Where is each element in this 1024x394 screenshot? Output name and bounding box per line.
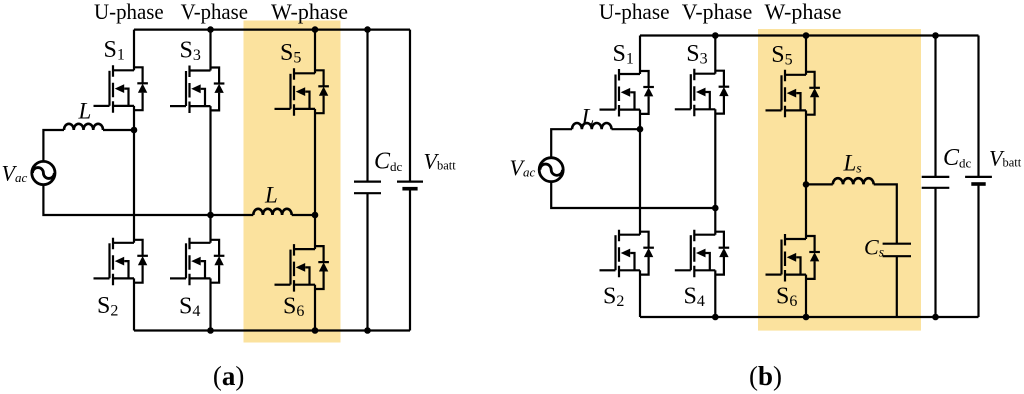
capacitor Cs snubber (b) [883,244,911,257]
svg-text:S1: S1 [613,41,634,68]
wire top DC bus (a) [134,29,410,31]
node bottom bus / V leg (b) (junction dot) [712,314,719,321]
wire U-phase leg upper (b) [639,36,641,75]
wire Vbatt top lead (b) [977,36,979,177]
svg-text:L: L [581,105,595,130]
wire V-phase leg middle (a) [209,106,211,243]
svg-text:Cdc: Cdc [374,149,403,175]
svg-text:S1: S1 [104,37,125,64]
inductor L input (b) [572,123,612,129]
wire W-phase leg upper (a) [314,30,316,74]
W-phase highlight rectangle (b) [758,29,921,331]
wire U-phase leg lower (a) [133,278,135,330]
wire Vbatt top lead (a) [409,30,411,182]
inductor Ls snubber (b) [833,178,874,184]
transistor S3 (b) (MOSFET with body diode) [675,69,729,117]
svg-text:Vac: Vac [510,155,536,180]
node U midpoint (b) (junction dot) [637,126,644,133]
wire W-phase leg middle (a) [314,109,316,249]
wire Cs bottom lead (b) [896,256,898,317]
transistor S5 (b) (MOSFET with body diode) [766,70,820,118]
transistor S1 (a) (MOSFET with body diode) [94,65,148,113]
wire U-phase leg middle (b) [639,110,641,235]
svg-text:Vac: Vac [2,161,28,186]
transistor S2 (a) (MOSFET with body diode) [94,238,148,285]
AC source Vac (b) (circle with sine) [539,158,563,182]
svg-text:U-phase: U-phase [94,0,164,24]
svg-text:S4: S4 [684,284,705,311]
node bottom bus / Cdc (a) (junction dot) [364,327,371,334]
node top bus / W leg (a) (junction dot) [312,26,319,33]
wire W-phase leg upper (b) [805,36,807,75]
inductor L W-phase (a) [253,209,291,215]
wire U-phase leg lower (b) [639,270,641,317]
AC source Vac (a) (circle with sine) [32,161,55,184]
wire V-phase leg middle (b) [714,109,716,234]
svg-text:W-phase: W-phase [271,0,348,24]
capacitor Cdc (a) [354,182,381,194]
wire Cdc top lead (a) [366,30,368,182]
wire V-phase leg upper (a) [209,30,211,71]
transistor S3 (a) (MOSFET with body diode) [170,66,224,114]
svg-text:(a): (a) [213,361,245,391]
capacitor Cdc (b) [922,177,950,188]
svg-text:W-phase: W-phase [765,0,842,24]
wire V-phase leg lower (a) [209,278,211,330]
node U midpoint (a) (junction dot) [131,127,138,134]
transistor S2 (b) (MOSFET with body diode) [600,230,654,278]
wire Cdc top lead (b) [934,36,936,177]
W-phase highlight rectangle (a) [244,21,341,343]
wire U-phase leg middle (a) [133,106,135,243]
wire W-phase leg middle (b) [805,110,807,239]
inductor L input (a) [64,124,103,130]
battery Vbatt (a) [397,182,423,189]
wire Vac bottom lead (a) [43,185,253,215]
transistor S6 (b) (MOSFET with body diode) [766,234,820,282]
node top bus / V leg (a) (junction dot) [207,26,214,33]
svg-text:S4: S4 [179,294,200,321]
wire Cdc bottom lead (a) [366,193,368,330]
node W midpoint (a) (junction dot) [312,212,319,219]
wire W-phase leg lower (a) [314,285,316,331]
wire Ls to Cs (b) [874,184,897,243]
svg-text:Vbatt: Vbatt [989,146,1022,171]
node V midpoint (b) (junction dot) [712,205,719,212]
node bottom bus / V leg (a) (junction dot) [207,327,214,334]
node top bus / Cdc (a) (junction dot) [364,26,371,33]
wire Cdc bottom lead (b) [934,188,936,317]
wire Vac bottom lead (b) [551,182,715,208]
wire top DC bus (b) [640,34,979,36]
svg-text:L: L [264,182,278,207]
node bottom bus / W leg (a) (junction dot) [312,327,319,334]
svg-text:Cdc: Cdc [943,145,972,171]
wire Vbatt bottom lead (a) [409,189,411,331]
wire bottom DC bus (a) [134,329,410,331]
wire W-phase leg lower (b) [805,275,807,317]
wire L to W-node (a) [292,214,315,216]
wire Vac top lead (b) [551,129,572,158]
svg-text:U-phase: U-phase [599,0,670,24]
node top bus / V leg (b) (junction dot) [712,32,719,39]
wire V-phase leg upper (b) [714,36,716,74]
wire Vac top lead (a) [43,130,64,161]
svg-text:S3: S3 [686,41,707,68]
svg-text:S2: S2 [97,293,118,320]
transistor S5 (a) (MOSFET with body diode) [275,68,329,116]
svg-text:V-phase: V-phase [181,0,248,24]
transistor S4 (b) (MOSFET with body diode) [675,230,729,278]
wire Vbatt bottom lead (b) [977,184,979,317]
wire L to U-node (b) [612,128,641,130]
svg-text:V-phase: V-phase [682,0,753,24]
svg-text:S2: S2 [603,284,624,311]
battery Vbatt (b) [965,177,992,184]
node bottom bus / Cdc (b) (junction dot) [932,314,939,321]
wire V-phase leg lower (b) [714,270,716,317]
node W midpoint (b) (junction dot) [803,181,810,188]
wire L to U-node (a) [103,129,134,131]
wire bottom DC bus (b) [640,316,979,318]
transistor S1 (b) (MOSFET with body diode) [600,69,654,117]
svg-text:S3: S3 [180,38,201,65]
node top bus / Cdc (b) (junction dot) [932,32,939,39]
transistor S6 (a) (MOSFET with body diode) [275,244,329,292]
node V midpoint (a) (junction dot) [207,212,214,219]
wire W-node to Ls (b) [806,183,833,185]
svg-text:(b): (b) [749,361,782,391]
svg-text:Vbatt: Vbatt [424,149,457,174]
node top bus / W leg (b) (junction dot) [803,32,810,39]
svg-text:L: L [78,99,92,124]
wire U-phase leg upper (a) [133,30,135,71]
transistor S4 (a) (MOSFET with body diode) [170,238,224,285]
node bottom bus / W leg (b) (junction dot) [803,314,810,321]
